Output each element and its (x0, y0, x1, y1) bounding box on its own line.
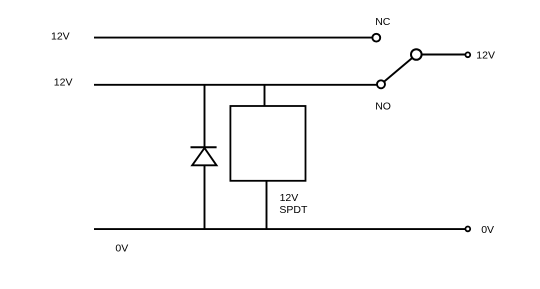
svg-text:12V: 12V (280, 192, 299, 204)
svg-text:12V: 12V (476, 50, 495, 62)
svg-text:12V: 12V (54, 77, 73, 89)
svg-text:0V: 0V (481, 224, 494, 236)
svg-text:12V: 12V (51, 30, 70, 42)
svg-text:0V: 0V (115, 243, 128, 255)
svg-text:NC: NC (375, 16, 391, 28)
svg-text:SPDT: SPDT (279, 204, 308, 216)
svg-text:NO: NO (375, 100, 391, 112)
